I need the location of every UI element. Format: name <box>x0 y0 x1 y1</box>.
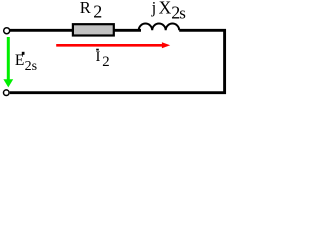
wire top left segment <box>10 29 141 32</box>
resistor R2 <box>73 24 114 35</box>
svg-text:2: 2 <box>102 54 109 70</box>
wire bottom <box>10 91 226 94</box>
svg-text:s: s <box>32 59 37 74</box>
svg-text:s: s <box>179 3 186 22</box>
svg-text:X: X <box>159 0 172 18</box>
svg-text:j: j <box>151 0 157 17</box>
inductor jX2s coil <box>139 24 180 31</box>
current arrow I2 (red, pointing right) <box>56 44 163 47</box>
svg-text:2: 2 <box>93 2 102 22</box>
wire top right segment <box>179 29 226 32</box>
svg-text:2: 2 <box>25 59 32 74</box>
svg-text:R: R <box>80 0 91 17</box>
terminal bottom left <box>4 90 10 96</box>
voltage arrow E2s (green, pointing down) <box>7 37 10 80</box>
terminal top left <box>4 28 10 34</box>
wire right vertical <box>223 29 226 94</box>
svg-text:I: I <box>96 49 101 65</box>
